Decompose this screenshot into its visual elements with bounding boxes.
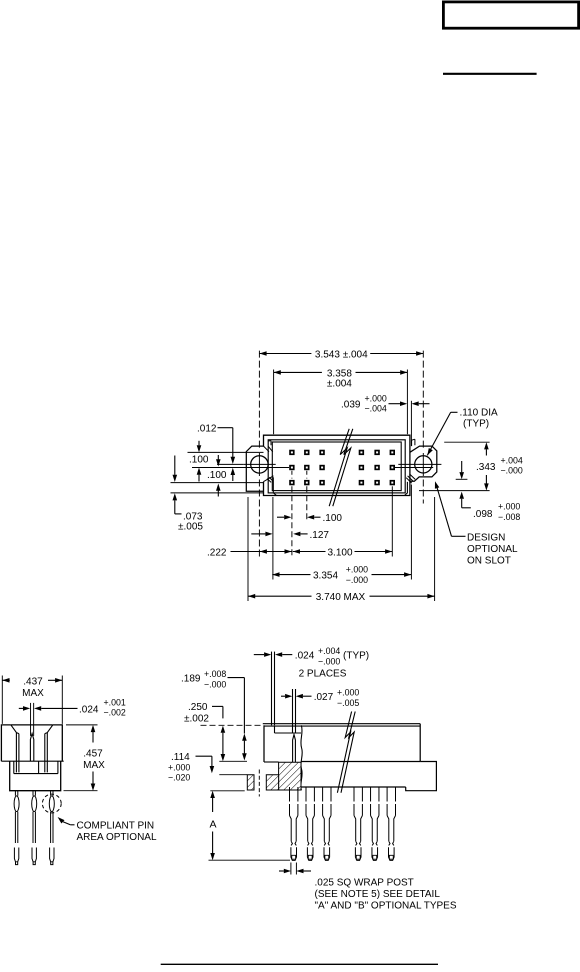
svg-text:.110 DIA: .110 DIA <box>460 407 498 418</box>
svg-text:±.005: ±.005 <box>178 521 203 532</box>
svg-text:+.000: +.000 <box>337 688 359 698</box>
side view break bolts through band <box>337 712 351 793</box>
svg-text:.114: .114 <box>171 752 190 763</box>
connector body outer outline <box>264 435 410 495</box>
svg-text:(TYP): (TYP) <box>463 419 489 430</box>
end view dim .437 MAX <box>2 679 10 681</box>
svg-text:+.000: +.000 <box>498 502 520 512</box>
svg-text:.024: .024 <box>295 651 315 662</box>
svg-text:.027: .027 <box>314 692 334 703</box>
body bottom extension line left <box>171 492 264 494</box>
dim .098 +.000/-.008 right <box>456 478 468 480</box>
svg-text:−.000: −.000 <box>204 680 226 690</box>
dim .343 +.004/-.000 right <box>444 441 489 443</box>
side view dashed datum line at body top <box>201 724 263 726</box>
svg-text:OPTIONAL: OPTIONAL <box>467 544 518 555</box>
extension line 3.358 left (x=273.6) <box>273 370 275 435</box>
break line (lightning bolts) through body <box>329 429 349 506</box>
title block box (top right) <box>443 2 578 28</box>
row 2 centerline right <box>395 467 433 469</box>
pin column dashed centerlines below grid <box>291 471 293 479</box>
row 3 extension line left <box>171 482 264 484</box>
side view right flange foot <box>406 762 437 791</box>
svg-text:.024: .024 <box>79 704 99 715</box>
svg-text:.025 SQ WRAP POST: .025 SQ WRAP POST <box>315 877 414 888</box>
side view body band <box>263 725 265 762</box>
svg-text:"A" AND "B" OPTIONAL TYPES: "A" AND "B" OPTIONAL TYPES <box>315 900 457 911</box>
end view dim .457 MAX <box>66 724 98 726</box>
svg-text:+.004: +.004 <box>318 646 340 656</box>
svg-text:.012: .012 <box>197 424 217 435</box>
svg-text:−.008: −.008 <box>498 512 520 522</box>
section hatch: board left segment <box>247 775 254 790</box>
svg-text:.457: .457 <box>83 748 103 759</box>
side view bottom face <box>302 786 406 788</box>
svg-text:(TYP): (TYP) <box>343 651 369 662</box>
svg-text:+.001: +.001 <box>104 697 126 707</box>
svg-text:−.002: −.002 <box>104 708 126 718</box>
hole centerline right (x=423.3) <box>422 351 424 449</box>
left ear lower tab <box>273 477 276 495</box>
board hole dashed centerline <box>258 770 260 797</box>
svg-text:MAX: MAX <box>83 760 105 771</box>
svg-text:2 PLACES: 2 PLACES <box>299 668 347 679</box>
end view center mating pin <box>30 734 33 762</box>
svg-text:−.000: −.000 <box>318 656 340 666</box>
svg-text:.098: .098 <box>473 509 493 520</box>
svg-text:DESIGN: DESIGN <box>467 532 505 543</box>
svg-text:.100: .100 <box>207 470 227 481</box>
side extension line board top left <box>219 774 247 776</box>
pin grid (square contacts) <box>289 450 294 455</box>
svg-text:−.004: −.004 <box>365 403 387 413</box>
side dim .027 +.000/-.005 <box>281 695 285 697</box>
side extension line board bottom left <box>210 790 244 792</box>
svg-text:3.543 ±.004: 3.543 ±.004 <box>315 350 368 361</box>
dim .073 +/-.005 <box>174 456 176 475</box>
right hole crosshair horizontal <box>398 463 441 465</box>
compliant pin leader arrow <box>58 817 65 824</box>
side view body bottom edge <box>302 761 421 763</box>
svg-text:±.004: ±.004 <box>327 379 352 390</box>
row 2 centerline left <box>192 467 289 469</box>
svg-text:−.005: −.005 <box>337 698 359 708</box>
svg-text:AREA OPTIONAL: AREA OPTIONAL <box>77 832 157 843</box>
bottom dim 3.740 MAX <box>248 595 312 597</box>
connector shroud lip line outer <box>268 440 405 493</box>
svg-text:.343: .343 <box>476 462 496 473</box>
right ear lower tab <box>405 482 408 496</box>
svg-text:+.000: +.000 <box>365 394 387 404</box>
svg-text:−.000: −.000 <box>346 575 368 585</box>
svg-text:(SEE NOTE 5) SEE DETAIL: (SEE NOTE 5) SEE DETAIL <box>315 889 441 900</box>
side view shroud wall lines (024 feature) <box>271 652 273 726</box>
right ear bottom slot detail (design optional) <box>406 474 415 483</box>
bottom rule <box>161 963 438 965</box>
bottom dim 3.100 <box>293 549 300 554</box>
end view dim .024 +.001/-.002 <box>19 707 23 709</box>
left mounting hole <box>251 456 268 473</box>
left ear top slot detail <box>264 441 273 452</box>
svg-text:A: A <box>209 819 216 831</box>
side view inner ledge <box>275 732 302 734</box>
svg-text:3.354: 3.354 <box>313 571 338 582</box>
svg-text:3.100: 3.100 <box>327 548 352 559</box>
pin tip extension line <box>209 859 291 861</box>
side view pin inside (pointed top) <box>293 735 296 762</box>
svg-text:.222: .222 <box>207 548 227 559</box>
svg-text:COMPLIANT PIN: COMPLIANT PIN <box>77 821 155 832</box>
end view shroud outline <box>1 725 62 761</box>
svg-text:3.740 MAX: 3.740 MAX <box>316 592 366 603</box>
end view base block <box>10 761 61 791</box>
side dim .024 +.004/-.000 (TYP) 2 PLACES <box>254 654 264 656</box>
side view pin extension lines <box>292 689 294 733</box>
svg-text:−.020: −.020 <box>168 772 190 782</box>
right mounting ear outline <box>410 446 437 481</box>
svg-text:−.000: −.000 <box>501 466 523 476</box>
side view wrap-post pins <box>290 787 298 816</box>
svg-text:.437: .437 <box>23 676 43 687</box>
svg-text:+.000: +.000 <box>168 763 190 773</box>
svg-text:.250: .250 <box>188 702 208 713</box>
end view pins with compliant bulges <box>15 791 17 796</box>
dim 3.543 +/-.004 (hole center spacing) <box>259 353 311 355</box>
extension line 3.358 right (x=407.4) <box>406 370 408 435</box>
left ear bottom slot detail <box>263 476 273 483</box>
bottom dim 3.354 +.000/-.000 <box>272 574 310 576</box>
side extension line body bottom left <box>219 760 247 762</box>
svg-text:.127: .127 <box>310 530 330 541</box>
bottom dim .100 (pin pitch) <box>277 516 284 518</box>
bottom dim .127 <box>251 533 265 535</box>
row 1 extension line left <box>188 451 264 453</box>
svg-text:+.000: +.000 <box>346 565 368 575</box>
side view wavy section break <box>301 725 302 790</box>
connector shroud lip line inner <box>272 442 401 491</box>
bottom extension lines <box>247 497 249 601</box>
hole centerline left (x=259.4) <box>258 351 260 449</box>
dim .025 SQ WRAP POST <box>279 870 284 872</box>
left hole crosshair horizontal <box>244 463 276 465</box>
title underline <box>443 73 537 75</box>
svg-text:±.002: ±.002 <box>184 714 209 725</box>
svg-text:ON SLOT: ON SLOT <box>467 555 511 566</box>
left mounting ear outline <box>246 446 263 491</box>
extension line .039/3.354 right (x=411.4) <box>410 401 412 446</box>
svg-text:MAX: MAX <box>22 688 44 699</box>
end view left wall inner chamfer+faces <box>11 725 19 773</box>
svg-text:.100: .100 <box>189 455 209 466</box>
right mounting hole <box>415 456 432 473</box>
end view right wall inner chamfer+faces <box>45 725 53 773</box>
svg-text:+.004: +.004 <box>501 455 523 465</box>
right ear top slot detail <box>412 439 415 446</box>
side dim A <box>212 798 214 812</box>
svg-text:.039: .039 <box>341 400 361 411</box>
hole center horizontal extension left <box>217 463 244 465</box>
svg-text:+.008: +.008 <box>204 669 226 679</box>
svg-text:.189: .189 <box>181 673 201 684</box>
end view shroud top edges <box>11 724 53 726</box>
dim 3.358 +/-.004 (inner shroud width) <box>274 371 322 373</box>
svg-text:.100: .100 <box>323 513 343 524</box>
compliant pin dashed circle <box>42 794 61 813</box>
section hatch: board right segment <box>266 775 278 790</box>
